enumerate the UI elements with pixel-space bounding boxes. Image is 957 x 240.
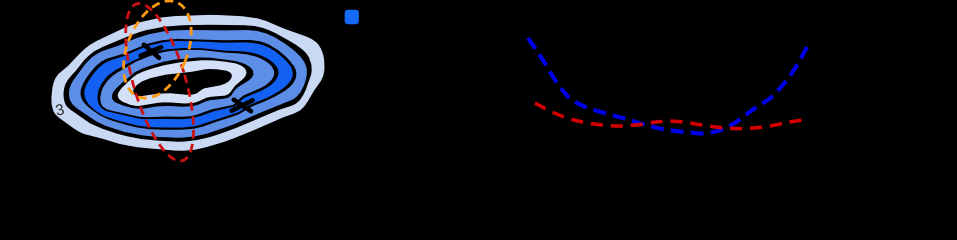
marker X 1 — [141, 45, 161, 58]
contour ring 5 (pale) — [118, 60, 247, 106]
red dashed ellipse (approximation) — [112, 0, 208, 168]
contour ring 1 (pale) — [51, 15, 324, 151]
contour ring 4 (cornflower) — [100, 50, 274, 117]
contour ring 3 (bright) — [84, 41, 292, 128]
legend marker square — [345, 10, 359, 25]
orange dashed ellipse (approximation) — [110, 0, 204, 108]
contour ring 2 (cornflower) — [69, 30, 307, 138]
marker X 2 — [232, 100, 253, 112]
right panel: blue dashed curve — [528, 38, 807, 134]
right panel: red dashed curve — [535, 103, 803, 129]
